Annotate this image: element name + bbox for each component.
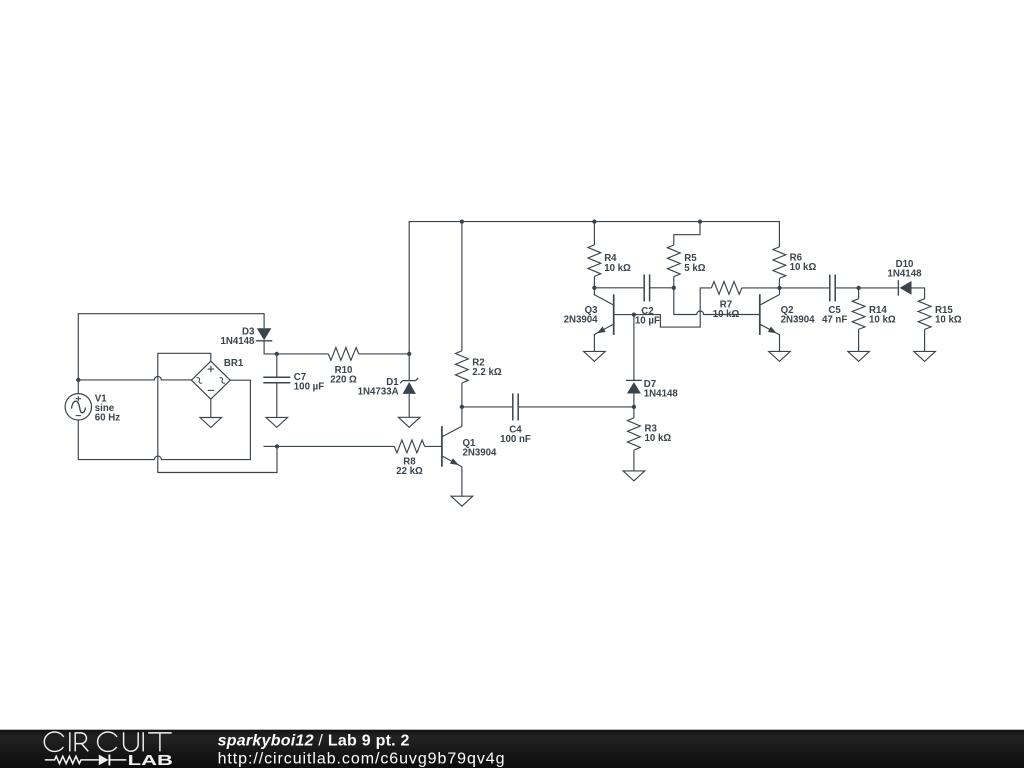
svg-text:LAB: LAB (128, 752, 173, 768)
node: junction C4/D7/R3 (632, 405, 636, 409)
label C7 (294, 372, 324, 393)
wire: node to C2 left plate (594, 287, 644, 289)
capacitor C4 (513, 393, 518, 420)
wire: V1 plus terminal up and over to D3 anode (78, 314, 264, 394)
capacitor C5 (830, 275, 835, 302)
wire: riser to top supply rail and rail to R6 (409, 222, 779, 354)
resistor R14 (852, 299, 865, 330)
node: junction Q3 base/D7/R7 branch (632, 312, 636, 316)
zener diode D1 (400, 378, 418, 394)
voltage source V1 (65, 394, 91, 420)
svg-text:sparkyboi12 / Lab 9 pt. 2: sparkyboi12 / Lab 9 pt. 2 (218, 733, 410, 750)
wire: node down to R14 top (858, 288, 860, 299)
wire: Q3 base to node (614, 314, 634, 316)
label R5 (684, 253, 705, 274)
ground under D1 (398, 417, 420, 427)
wire: C7 top lead (276, 354, 278, 377)
wire: Q3 emitter to ground (593, 335, 595, 352)
wire: D3 cathode down to positive rectified node (264, 341, 328, 354)
label R2 (472, 357, 502, 378)
label D3 (220, 326, 255, 347)
node: junction C5/R14/D10 line (856, 286, 860, 290)
ground under Q2 (769, 351, 791, 361)
footer url: http-circuitlab-com-c6uvg9b79qv4g (218, 751, 506, 768)
label D1 (358, 377, 400, 398)
wire: node down to R3 top (633, 407, 635, 418)
node: junction R10/D1/rail riser (407, 352, 411, 356)
label R15 (935, 305, 962, 326)
wire: node to C4 left plate (462, 406, 513, 408)
wire: BR1 plus terminal routed left and down to R8 node (158, 353, 277, 472)
label C4 (500, 425, 531, 446)
resistor R8 (394, 440, 424, 453)
node: junction R6/R7/Q2 collector/C5 (777, 286, 781, 290)
wire: rail down to R2 top (461, 222, 463, 351)
wire: Q1 emitter to ground (461, 467, 463, 497)
resistor R10 (328, 348, 358, 361)
wire: R3 bottom to ground (633, 450, 635, 471)
resistor R15 (918, 299, 931, 330)
logo resistor-diode glyph (45, 754, 127, 765)
wire: node jog to R7 left lead (634, 288, 712, 327)
ground under Q1 (451, 496, 473, 506)
logo CIRCUIT wordmark (44, 732, 171, 751)
node: junction R4/Q3 collector/C2 line (592, 286, 596, 290)
label R3 (645, 424, 672, 445)
label R6 (790, 253, 817, 274)
wire: node to D10 cathode (859, 287, 898, 289)
wire: rail down to R4 top (593, 222, 595, 245)
wire: D1 anode down to ground (408, 394, 410, 417)
label C5 (822, 305, 847, 326)
label V1 (95, 393, 120, 423)
label R10 (330, 365, 357, 386)
capacitor C2 (644, 274, 649, 301)
wire: R7 right lead to Q2 collector node (742, 287, 780, 289)
ground under Q3 (584, 351, 606, 361)
label R7 (713, 299, 740, 320)
ground under BR1 (200, 418, 222, 428)
wire: R2 bottom to Q1 collector node (461, 383, 463, 407)
wire: Q2 collector lead (779, 288, 781, 295)
label C2 (635, 306, 660, 327)
capacitor C7 (263, 377, 290, 383)
label Q1 (463, 438, 498, 459)
diode D10 (898, 280, 911, 296)
wire: Q2 emitter to ground (779, 335, 781, 352)
wire: Q3 collector lead (593, 288, 595, 295)
footer title: sparkyboi12 / Lab 9 pt. 2 (218, 733, 410, 750)
wire: C7 bottom lead to ground (276, 383, 278, 418)
label R14 (869, 305, 896, 326)
ground under R14 (848, 351, 870, 361)
label R4 (604, 253, 631, 274)
resistor R4 (588, 245, 601, 277)
wire: Q1 collector lead (461, 407, 463, 427)
wire: R8 line left stub (264, 445, 278, 447)
ground under R15 (914, 351, 936, 361)
node: junction C7 tap on rectified node (275, 352, 279, 356)
wire: R15 bottom to ground (924, 329, 926, 351)
resistor R5 (667, 245, 680, 277)
wire: node to C5 left plate (780, 287, 830, 289)
node: junction rail/R4 (592, 219, 596, 223)
wire: C4 right plate to D7/R3 node (518, 406, 634, 408)
resistor R6 (773, 247, 786, 279)
bridge rectifier BR1 (191, 361, 230, 399)
wire: V1 to BR1 left AC terminal (hop over BR1+ return) (78, 376, 191, 379)
wire: R8 node to R8 left lead (277, 445, 394, 447)
wire: V1 minus terminal down and right to BR1 right AC terminal (78, 380, 250, 459)
label R8 (396, 456, 423, 477)
label D10 (888, 259, 923, 280)
label BR1 (224, 358, 244, 369)
wire: rail jog down-left to R5 top (674, 222, 700, 246)
transistor Q2 (760, 294, 780, 335)
diode D3 (256, 328, 272, 341)
node: junction rail/R2 (460, 219, 464, 223)
node: junction R8 base feed (275, 444, 279, 448)
wire: R14 bottom to ground (858, 329, 860, 351)
resistor R3 (628, 418, 641, 450)
wire: R4 bottom to Q3 collector node (593, 276, 595, 287)
wire: D7 cathode up to Q3 base node (633, 315, 635, 381)
node: junction R5/C2/Q2 base feed (672, 286, 676, 290)
wire: R6 bottom to Q2 collector node (778, 278, 780, 288)
node: junction V1 top branch (76, 378, 80, 382)
transistor Q3 (594, 294, 614, 335)
wire: BR1 minus terminal to ground (210, 399, 212, 417)
svg-text:BR1: BR1 (224, 358, 244, 369)
wire: C5 right plate to R14 node (835, 287, 858, 289)
wire: R8 right lead to Q1 base (425, 445, 442, 447)
label Q2 (781, 305, 816, 326)
ground under C7 (266, 417, 288, 427)
wire: R10 right lead to node at x409 (359, 353, 410, 355)
node: junction rail/R5 jog (698, 219, 702, 223)
label D7 (644, 379, 679, 400)
wire: C2 right plate to R5 bottom node (650, 287, 674, 289)
label Q3 (564, 305, 599, 326)
wire: R5 bottom lead (673, 277, 675, 288)
diode D7 (626, 380, 642, 393)
wire: D10 anode right and down to R15 top (912, 288, 925, 299)
transistor Q1 (442, 426, 462, 467)
resistor R7 (711, 282, 741, 295)
ground under R3 (623, 471, 645, 481)
wire: D1 node down to zener cathode (408, 354, 410, 381)
wire: R5 node down and right to Q2 base (hop over R7 branch) (674, 288, 760, 315)
footer bar (0, 730, 1024, 768)
node: junction R2/Q1 collector/C4 (460, 405, 464, 409)
wire: D7 anode down to C4/R3 node (633, 394, 635, 407)
resistor R2 (456, 351, 469, 383)
logo LAB wordmark (128, 752, 173, 768)
svg-text:http://circuitlab.com/c6uvg9b7: http://circuitlab.com/c6uvg9b79qv4g (218, 751, 506, 768)
